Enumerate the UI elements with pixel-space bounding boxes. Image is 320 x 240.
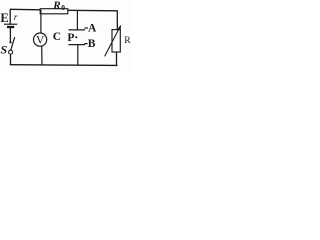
svg-text:V: V: [36, 34, 45, 46]
svg-text:P: P: [67, 32, 74, 44]
rheostat arrow: [105, 25, 122, 57]
svg-text:R: R: [52, 0, 60, 12]
svg-text:B: B: [88, 38, 96, 50]
wire voltmeter branch upper: [40, 10, 42, 33]
battery E long plate: [4, 23, 17, 25]
rheostat R box: [112, 30, 120, 52]
wire top rail left segment: [10, 8, 40, 11]
wire voltmeter branch lower: [41, 46, 43, 65]
switch S hinge circle: [9, 50, 13, 54]
resistor R0: [40, 9, 68, 14]
label R0: [52, 0, 65, 12]
capacitor plate A: [69, 29, 86, 31]
tick to label A: [84, 27, 88, 29]
wire left branch upper: [9, 9, 11, 24]
wire top rail right segment: [68, 9, 118, 12]
wire capacitor branch upper: [76, 10, 78, 30]
wire switch to bottom rail: [10, 55, 12, 65]
switch S top terminal: [9, 41, 11, 43]
svg-text:R: R: [124, 36, 131, 46]
svg-text:C: C: [53, 31, 61, 43]
battery E short plate: [7, 26, 14, 28]
wire battery to switch: [9, 28, 11, 42]
wire right branch upper: [116, 10, 118, 29]
voltmeter V circle: [34, 33, 47, 46]
svg-text:A: A: [88, 23, 97, 35]
svg-text:0: 0: [61, 3, 65, 12]
svg-text:S: S: [1, 43, 8, 57]
tick to label B: [84, 43, 87, 45]
svg-text:r: r: [14, 13, 18, 23]
wire capacitor branch lower: [77, 45, 79, 66]
wire right branch lower: [116, 52, 118, 65]
svg-text:E: E: [0, 11, 8, 25]
capacitor plate B: [69, 44, 86, 46]
wire bottom rail: [10, 64, 118, 67]
point P dot: [75, 36, 77, 38]
switch S blade: [11, 37, 15, 50]
